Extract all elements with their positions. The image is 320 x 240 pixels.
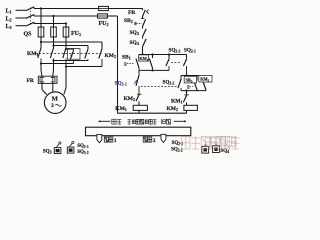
svg-text:SQ1-1: SQ1-1 — [115, 81, 127, 87]
switch QS blade phase2 — [26, 15, 34, 19]
wire KM1 coil to bus — [138, 110, 140, 113]
wire FU1a to KM1 — [40, 37, 42, 48]
watermark gray part — [206, 137, 215, 139]
limit switch SQ3 body — [54, 148, 61, 154]
wire KM2 tap3 — [66, 48, 74, 50]
wire phaseC to motor — [65, 67, 67, 89]
limit switch SQ1 body — [67, 147, 74, 153]
fuse FU1 b — [51, 27, 57, 37]
contactor KM1 main contact 1 — [38, 48, 41, 58]
wire KM2 tap1 — [41, 41, 102, 43]
svg-text:SQ2-1: SQ2-1 — [184, 48, 196, 54]
wire L1 input stub — [16, 9, 27, 11]
contactor linkage dashes — [35, 53, 103, 55]
wire to left rail — [109, 8, 143, 10]
svg-text:SQ3: SQ3 — [130, 30, 139, 36]
contactor KM1 NC interlock — [184, 94, 189, 96]
wire SQ4 to bus A — [142, 47, 144, 55]
contactor KM1 aux NO — [152, 55, 154, 59]
limit switch SQ4 contact — [143, 39, 147, 47]
limit switch SQ4 body — [213, 146, 220, 153]
wire phaseB to FR — [53, 61, 55, 71]
wire L3 input stub — [16, 25, 27, 27]
wire phaseA to FR — [40, 64, 42, 71]
svg-text:L2: L2 — [6, 16, 12, 22]
switch QS linkage — [29, 8, 31, 26]
svg-text:KM2: KM2 — [200, 77, 209, 83]
text houtui (backward) — [112, 119, 116, 124]
contactor KM2 main contact 2 — [85, 49, 88, 59]
svg-text:L1: L1 — [6, 9, 12, 15]
wire SQ3-SQ4 — [142, 37, 144, 39]
wire FU1b to KM1 — [53, 37, 55, 48]
svg-text:M: M — [52, 95, 59, 102]
svg-text:KM2: KM2 — [124, 96, 135, 102]
switch QS blade phase3 — [26, 22, 34, 26]
svg-text:FU1: FU1 — [71, 31, 81, 37]
contactor KM2 aux NO — [205, 76, 207, 82]
switch QS blade phase1 — [26, 7, 34, 11]
wire crossover c — [66, 66, 102, 68]
wire bus A — [139, 54, 187, 56]
svg-text:SQ4: SQ4 — [130, 40, 139, 46]
relay FR NC contact — [142, 8, 144, 10]
relay FR element 1 — [40, 78, 44, 82]
limit switch SQ3 contact — [143, 29, 147, 37]
dog 1 (stop iron) — [97, 135, 102, 143]
wire to return rail — [108, 15, 118, 17]
svg-text:KM1: KM1 — [115, 106, 126, 112]
wire right junction top — [181, 75, 206, 77]
wire crossover b — [41, 63, 74, 65]
svg-text:FU2: FU2 — [99, 21, 109, 27]
wire phase1 line — [34, 8, 98, 10]
contactor KM2 aux boxed label — [199, 75, 212, 82]
wire crossover a — [54, 60, 89, 62]
wire to KM1 coil — [138, 101, 140, 105]
relay FR element 2 — [51, 78, 55, 82]
svg-text:SQ1-2: SQ1-2 — [163, 80, 175, 86]
arrow forward — [174, 120, 186, 122]
dog 2 (stop iron) — [161, 134, 166, 142]
contactor KM1 aux boxed label — [139, 55, 149, 61]
fuse FU1 a — [38, 27, 44, 37]
wire phase2 line — [34, 15, 97, 17]
svg-text:L3: L3 — [6, 24, 13, 30]
svg-text:FR: FR — [27, 78, 35, 84]
limit switch SQ2-1 NO — [186, 55, 188, 59]
coil KM1 — [133, 105, 147, 110]
wire drop phase3 — [65, 24, 67, 28]
contactor KM2 main contact 3 — [99, 49, 102, 59]
wire right junction bottom — [181, 90, 206, 92]
text dangtie1 label — [104, 137, 108, 142]
svg-text:SB1: SB1 — [122, 55, 131, 61]
svg-text:KM1: KM1 — [139, 56, 148, 62]
box around KM2 contact 1 — [68, 49, 81, 60]
wire bus B — [139, 69, 169, 71]
wire FR to motor 2 — [52, 83, 54, 92]
wire FU1c to KM1 — [65, 37, 67, 48]
wire KM2 coil to bus — [186, 110, 188, 113]
linkage SQ2 dashes — [171, 62, 181, 64]
contactor KM1 main contact 2 — [50, 48, 53, 58]
wire phase3 line — [34, 23, 66, 25]
button SB3 boxed label — [184, 76, 196, 83]
arrow backward — [99, 120, 111, 122]
contactor KM1 main contact 3 — [63, 48, 66, 58]
svg-text:3: 3 — [51, 103, 54, 109]
svg-text:KM1: KM1 — [27, 51, 38, 57]
svg-text:KM2: KM2 — [167, 106, 178, 112]
svg-text:FR: FR — [128, 10, 136, 16]
watermark text — [182, 137, 190, 150]
wire to KM2 coil — [186, 102, 188, 105]
limit switch SQ1-2 NO — [180, 76, 182, 79]
linkage SQ1 dashes — [141, 86, 179, 88]
wire drop phase2 — [53, 16, 55, 27]
fuse FU1 c — [63, 27, 69, 37]
wire to KM1 NC — [186, 91, 188, 95]
contactor KM2 NC interlock — [137, 93, 142, 95]
fuse FU2 a — [98, 8, 109, 10]
worktable rectangle — [86, 127, 191, 136]
svg-text:SQ3: SQ3 — [43, 148, 52, 154]
svg-text:KM1: KM1 — [171, 98, 182, 104]
svg-text:SQ1-1: SQ1-1 — [77, 144, 89, 149]
wire L2 input stub — [16, 17, 27, 19]
wire bottom bus — [118, 112, 187, 114]
svg-text:SQ1-2: SQ1-2 — [77, 150, 89, 155]
motor M circle — [44, 92, 66, 114]
wire drop phase1 — [40, 9, 42, 28]
contactor KM2 main contact 1 — [70, 51, 73, 60]
svg-text:SQ2-2: SQ2-2 — [169, 48, 181, 54]
wire SB2-SQ3 — [142, 27, 144, 29]
relay FR heater box — [38, 76, 57, 83]
button SB1 NO — [138, 55, 140, 58]
limit switch SQ1-1 NC — [138, 70, 140, 74]
text qianjin (forward) — [161, 119, 163, 124]
svg-text:KM2: KM2 — [105, 53, 116, 59]
wire KM2 tap2 — [54, 45, 89, 47]
button SB3 NO — [196, 76, 198, 81]
limit switch SQ2 body — [202, 146, 209, 153]
svg-text:QS: QS — [24, 32, 33, 38]
button SB2 NC — [141, 18, 145, 20]
svg-text:SB2: SB2 — [124, 18, 133, 24]
fuse FU2 b — [97, 15, 108, 17]
text worktable direction — [128, 119, 131, 121]
wire FR to motor 1 — [41, 83, 43, 89]
text dangtie2 label — [143, 137, 147, 142]
wire FR-SB2 — [142, 17, 144, 19]
svg-text:SB3: SB3 — [186, 78, 193, 84]
limit switch SQ2-2 NO — [168, 55, 170, 59]
wire return rail — [117, 16, 119, 113]
coil KM2 — [184, 105, 198, 110]
